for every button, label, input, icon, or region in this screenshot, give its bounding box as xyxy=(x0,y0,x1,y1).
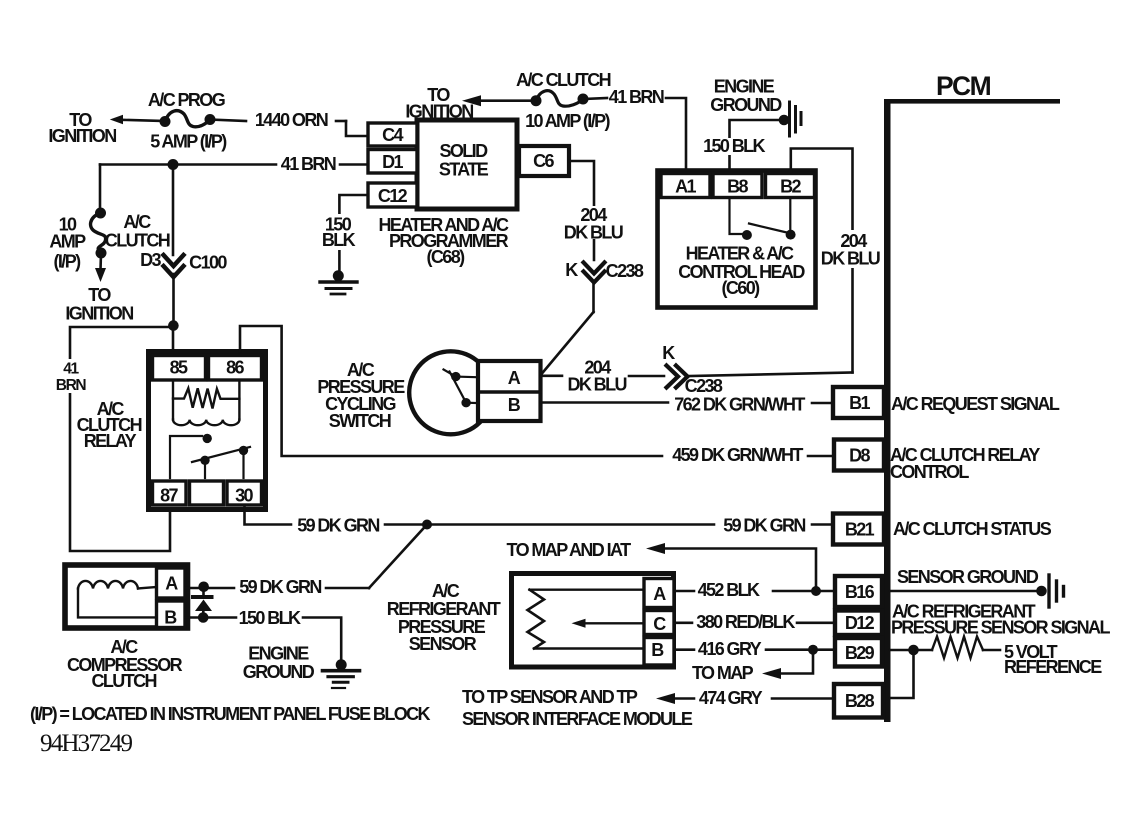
label A/C CLUTCH RELAY xyxy=(77,399,142,451)
wire diagonal junction to compressor branch xyxy=(369,525,427,589)
svg-text:B: B xyxy=(508,395,521,415)
ground (sensor, right-facing) xyxy=(1036,575,1063,607)
svg-text:A: A xyxy=(508,368,521,388)
svg-text:10 AMP (I/P): 10 AMP (I/P) xyxy=(525,111,610,131)
clutch diode xyxy=(193,587,212,618)
control head terminal B8 xyxy=(713,174,762,198)
label A/C PRESSURE CYCLING SWITCH xyxy=(317,360,405,431)
svg-text:(C60): (C60) xyxy=(721,278,760,298)
relay terminal 86 xyxy=(209,356,262,381)
svg-text:A/C REQUEST SIGNAL: A/C REQUEST SIGNAL xyxy=(891,394,1060,414)
label 10 AMP (I/P) (top fuse) xyxy=(525,111,610,131)
svg-text:REFRIGERANT: REFRIGERANT xyxy=(387,599,501,619)
label TO MAP xyxy=(692,663,754,683)
node junction 452 BLK xyxy=(811,586,821,596)
wire C6 to C238 (204 DK BLU) xyxy=(542,161,595,374)
resistor 5V ref xyxy=(932,637,983,659)
label A/C REFRIGERANT PRESSURE SENSOR SIGNAL xyxy=(891,602,1110,638)
connector K C238 (right chevrons) xyxy=(667,366,688,388)
control head terminal B2 xyxy=(766,174,815,198)
svg-text:B1: B1 xyxy=(849,393,870,413)
label 41 BRN xyxy=(281,154,336,174)
label C100 xyxy=(189,253,227,273)
node junction 59 DK GRN xyxy=(422,520,432,530)
svg-text:(I/P) = LOCATED IN INSTRUMEN: (I/P) = LOCATED IN INSTRUMENT PANEL FUSE… xyxy=(30,704,431,724)
programmer terminal C4 xyxy=(368,123,417,146)
svg-text:IGNITION: IGNITION xyxy=(65,304,133,324)
connector D3 C100 (double chevron down) xyxy=(164,255,184,277)
PCM terminal D8 xyxy=(834,440,884,471)
svg-text:SENSOR INTERFACE MODULE: SENSOR INTERFACE MODULE xyxy=(462,709,693,729)
wire 416 GRY xyxy=(674,648,835,651)
svg-text:ENGINE: ENGINE xyxy=(714,77,775,97)
svg-text:PRESSURE SENSOR SIGNAL: PRESSURE SENSOR SIGNAL xyxy=(891,618,1110,638)
svg-text:150 BLK: 150 BLK xyxy=(239,608,301,628)
label 204 DK BLU (C6) xyxy=(564,205,623,243)
svg-text:REFERENCE: REFERENCE xyxy=(1004,657,1102,677)
wire 150 BLK (compressor B) xyxy=(185,618,341,661)
fuse A/C CLUTCH 10 AMP (I/P) xyxy=(91,208,107,259)
label 474 GRY xyxy=(699,688,763,708)
wire 452 BLK xyxy=(674,590,835,593)
svg-text:SENSOR: SENSOR xyxy=(409,634,477,654)
label A/C CLUTCH (top fuse) xyxy=(516,70,611,90)
wire left drop to 10A fuse xyxy=(99,165,102,212)
wire 380 RED/BLK xyxy=(674,621,835,624)
label 150 BLK (programmer) xyxy=(320,214,356,250)
label ENGINE GROUND (control head) xyxy=(710,77,782,116)
wire B2 to 204 DK BLU drop xyxy=(791,149,853,373)
control head outer box xyxy=(658,171,816,308)
svg-text:762 DK GRN/WHT: 762 DK GRN/WHT xyxy=(674,395,805,415)
svg-text:C6: C6 xyxy=(533,151,554,171)
svg-text:K: K xyxy=(662,343,675,363)
wire 86 to 459 DK GRN/WHT (to D8) xyxy=(240,326,662,456)
pressure switch contact dots xyxy=(451,372,471,408)
svg-text:B29: B29 xyxy=(845,643,875,663)
node junction 41 BRN xyxy=(168,159,179,170)
svg-text:D1: D1 xyxy=(382,152,403,172)
svg-text:59 DK GRN: 59 DK GRN xyxy=(239,577,321,597)
wire 1440 ORN to C4 xyxy=(210,120,368,137)
label HEATER AND A/C PROGRAMMER (C68) xyxy=(379,215,510,267)
svg-text:B: B xyxy=(164,608,177,628)
label 1440 ORN xyxy=(255,110,328,130)
svg-text:B16: B16 xyxy=(845,582,875,602)
svg-text:(I/P): (I/P) xyxy=(54,252,82,272)
label SOLID STATE xyxy=(439,141,489,180)
svg-text:TO TP SENSOR AND TP: TO TP SENSOR AND TP xyxy=(462,687,638,707)
svg-text:IGNITION: IGNITION xyxy=(48,126,116,146)
arrow down TO IGNITION xyxy=(95,253,106,282)
control head terminal A1 xyxy=(661,174,710,198)
svg-text:B2: B2 xyxy=(780,177,801,197)
svg-text:K: K xyxy=(565,260,578,280)
programmer terminal C6 xyxy=(519,146,569,176)
svg-text:C100: C100 xyxy=(189,253,227,273)
svg-text:380 RED/BLK: 380 RED/BLK xyxy=(696,612,795,632)
wire 59 DK GRN to B21 xyxy=(427,523,833,526)
sensor wiper arrow xyxy=(572,619,586,628)
svg-text:HEATER & A/C: HEATER & A/C xyxy=(686,244,794,264)
svg-text:TO MAP AND IAT: TO MAP AND IAT xyxy=(507,540,632,560)
node junction 416 GRY xyxy=(808,645,818,655)
label 204 DK BLU (switch) xyxy=(567,358,626,395)
PCM terminal D12 xyxy=(835,611,882,636)
svg-text:D12: D12 xyxy=(845,613,875,633)
svg-text:A: A xyxy=(653,584,666,604)
sensor terminal A xyxy=(644,579,674,608)
svg-text:86: 86 xyxy=(226,358,244,378)
wire 41 BRN loop to relay 87 xyxy=(70,327,173,551)
ground (compressor) xyxy=(323,659,360,688)
svg-text:41 BRN: 41 BRN xyxy=(609,87,664,107)
svg-text:DK BLU: DK BLU xyxy=(564,223,623,243)
svg-text:ENGINE: ENGINE xyxy=(248,644,309,664)
svg-text:459 DK GRN/WHT: 459 DK GRN/WHT xyxy=(672,445,803,465)
svg-text:C238: C238 xyxy=(685,376,723,396)
PCM boundary line xyxy=(884,99,1060,722)
label A/C CLUTCH xyxy=(105,212,170,251)
pressure switch contacts xyxy=(444,370,492,404)
label D3 xyxy=(140,250,161,270)
compressor terminal B xyxy=(157,601,186,628)
svg-text:RELAY: RELAY xyxy=(84,431,137,451)
compressor clutch outer box xyxy=(65,565,188,628)
programmer terminal C12 xyxy=(368,183,417,207)
relay K1 outer box xyxy=(149,352,266,510)
label 59 DK GRN (right) xyxy=(723,516,805,536)
svg-text:SENSOR GROUND: SENSOR GROUND xyxy=(897,567,1039,587)
ground (programmer) xyxy=(320,270,357,294)
svg-text:30: 30 xyxy=(235,486,253,506)
relay contact dots xyxy=(200,434,248,465)
svg-text:CLUTCH: CLUTCH xyxy=(92,671,157,691)
label TO IGNITION (below 10A fuse) xyxy=(65,285,133,324)
svg-text:94H37249: 94H37249 xyxy=(40,730,132,757)
programmer solid state box xyxy=(417,120,517,209)
svg-text:TO: TO xyxy=(88,285,111,305)
svg-text:59 DK GRN: 59 DK GRN xyxy=(723,516,805,536)
PCM terminal B21 xyxy=(833,514,884,545)
svg-text:474 GRY: 474 GRY xyxy=(699,688,763,708)
sensor zigzag resistor xyxy=(528,590,545,649)
node junction 5V ref xyxy=(908,645,919,656)
label 150 BLK (compressor) xyxy=(239,608,301,628)
svg-text:B28: B28 xyxy=(845,691,875,711)
label TO TP SENSOR AND TP SENSOR INTERFACE MODULE xyxy=(462,687,693,729)
svg-text:STATE: STATE xyxy=(439,160,489,180)
label 41 BRN (top) xyxy=(609,87,664,107)
wire B29 to 5 volt reference xyxy=(890,649,1000,652)
svg-text:GROUND: GROUND xyxy=(243,662,315,682)
fuse A/C PROG 5 AMP xyxy=(160,111,216,127)
relay terminal blank xyxy=(190,481,224,505)
svg-text:BLK: BLK xyxy=(322,230,356,250)
svg-text:(C68): (C68) xyxy=(426,247,465,267)
label 10 AMP (I/P) xyxy=(49,215,86,272)
wire sensor ground xyxy=(890,590,1040,593)
svg-text:C: C xyxy=(653,614,666,634)
label 380 RED/BLK xyxy=(696,612,795,632)
svg-text:CLUTCH: CLUTCH xyxy=(105,231,170,251)
pressure switch terminal box xyxy=(478,361,541,421)
svg-text:SOLID: SOLID xyxy=(439,141,488,161)
wire 474 GRY xyxy=(656,693,834,704)
control head switch dots xyxy=(742,230,796,240)
svg-text:C12: C12 xyxy=(378,186,408,206)
fuse A/C CLUTCH 10 AMP (top) xyxy=(531,91,589,107)
label A/C PROG xyxy=(148,90,225,110)
label 150 BLK (control head) xyxy=(702,136,766,156)
svg-text:B8: B8 xyxy=(727,177,748,197)
svg-text:59 DK GRN: 59 DK GRN xyxy=(297,516,379,536)
wire ground to B8 xyxy=(730,120,785,172)
wire 30 to 59 DK GRN xyxy=(245,505,428,525)
sensor terminal C xyxy=(644,611,674,635)
label TO IGNITION (programmer) xyxy=(405,85,473,122)
wire C12 to ground xyxy=(339,195,368,271)
svg-text:1440 ORN: 1440 ORN xyxy=(255,110,328,130)
svg-text:5 AMP (I/P): 5 AMP (I/P) xyxy=(150,132,227,152)
svg-text:D3: D3 xyxy=(140,250,161,270)
svg-text:C4: C4 xyxy=(382,125,403,145)
programmer terminal D1 xyxy=(368,150,417,174)
control head internal switch xyxy=(730,198,792,235)
svg-text:D8: D8 xyxy=(849,446,870,466)
compressor terminal A xyxy=(157,568,186,598)
sensor terminal B xyxy=(644,638,674,666)
svg-text:B: B xyxy=(651,640,664,660)
label 416 GRY xyxy=(698,639,762,659)
svg-text:A: A xyxy=(165,574,178,594)
label 59 DK GRN (left) xyxy=(297,516,379,536)
label 5 VOLT REFERENCE xyxy=(1004,642,1102,677)
wire vertical 41 BRN with D3/C100 xyxy=(172,165,175,327)
relay terminal 30 xyxy=(227,481,262,506)
svg-text:TO MAP: TO MAP xyxy=(692,663,754,683)
svg-text:85: 85 xyxy=(170,358,188,378)
label A/C CLUTCH RELAY CONTROL xyxy=(890,445,1040,482)
relay coil (resistor + inductor loop) xyxy=(173,380,239,425)
svg-text:87: 87 xyxy=(160,486,178,506)
svg-text:41: 41 xyxy=(63,361,79,378)
label TO MAP AND IAT xyxy=(507,540,632,560)
sensor outer box xyxy=(512,574,674,668)
svg-text:B21: B21 xyxy=(845,520,875,540)
svg-text:A/C: A/C xyxy=(110,637,138,657)
label A/C COMPRESSOR CLUTCH xyxy=(67,637,183,691)
wire 41 BRN horizontal to D1 xyxy=(100,163,368,166)
label 204 DK BLU (B2 drop) xyxy=(821,230,880,269)
PCM terminal B29 xyxy=(835,638,882,667)
relay terminal 85 xyxy=(153,356,206,381)
svg-text:A/C: A/C xyxy=(123,212,151,232)
arrow to ignition (programmer) xyxy=(462,95,536,106)
compressor coil xyxy=(78,581,156,617)
svg-text:GROUND: GROUND xyxy=(710,95,782,115)
svg-text:416 GRY: 416 GRY xyxy=(698,639,762,659)
svg-text:CONTROL: CONTROL xyxy=(890,462,969,482)
svg-text:DK BLU: DK BLU xyxy=(567,375,626,395)
svg-text:BRN: BRN xyxy=(56,377,87,394)
wire into relay 85 xyxy=(172,327,175,352)
wire B to B1 (762 DK GRN/WHT) xyxy=(541,401,833,404)
svg-text:SWITCH: SWITCH xyxy=(329,411,391,431)
label 459 DK GRN/WHT xyxy=(672,445,803,465)
PCM terminal B28 xyxy=(834,684,883,718)
PCM terminal B16 xyxy=(835,576,882,607)
arrow to ignition (left) xyxy=(110,115,165,124)
svg-text:150 BLK: 150 BLK xyxy=(703,136,765,156)
svg-text:A1: A1 xyxy=(675,177,696,197)
svg-text:41 BRN: 41 BRN xyxy=(281,154,336,174)
svg-text:A/C CLUTCH: A/C CLUTCH xyxy=(516,70,611,90)
connector K C238 (down chevrons) xyxy=(584,263,605,283)
wire TO MAP xyxy=(762,650,813,679)
svg-text:A/C: A/C xyxy=(432,581,460,601)
svg-text:A/C PROG: A/C PROG xyxy=(148,90,225,110)
label 452 BLK xyxy=(698,580,760,600)
pressure switch circle xyxy=(409,351,492,434)
label TO IGNITION (A/C PROG fuse feed) xyxy=(48,110,116,146)
wire junction to B28 xyxy=(890,650,914,698)
svg-text:DK BLU: DK BLU xyxy=(821,249,880,269)
svg-text:AMP: AMP xyxy=(49,232,86,252)
wire 459 segment to D8 xyxy=(808,455,832,458)
PCM terminal B1 xyxy=(833,387,884,418)
svg-text:452 BLK: 452 BLK xyxy=(698,580,760,600)
sensor internal wires xyxy=(530,590,645,649)
label 762 DK GRN/WHT xyxy=(674,395,805,415)
label HEATER & A/C CONTROL HEAD (C60) xyxy=(678,244,805,299)
ground (control head, right-facing) xyxy=(779,102,801,136)
relay terminal 87 xyxy=(153,481,187,506)
relay switch contact xyxy=(170,436,250,478)
label ENGINE GROUND (compressor) xyxy=(243,644,315,683)
node junction above relay xyxy=(168,320,179,331)
wire 41 BRN to A1 xyxy=(583,98,686,172)
label 41 BRN (vertical branch) xyxy=(53,359,88,394)
diode node dots xyxy=(198,582,209,623)
svg-text:PCM: PCM xyxy=(936,71,991,101)
arrow/wire TO MAP AND IAT xyxy=(646,543,816,591)
svg-text:A/C CLUTCH STATUS: A/C CLUTCH STATUS xyxy=(893,519,1052,539)
label 5 AMP (I/P) xyxy=(150,132,227,152)
label A/C REFRIGERANT PRESSURE SENSOR xyxy=(387,581,501,654)
label 59 DK GRN (compressor) xyxy=(239,577,321,597)
wire 59 DK GRN (compressor A) xyxy=(185,587,369,590)
svg-text:C238: C238 xyxy=(606,261,644,281)
wire A to C238 (204 DK BLU horizontal) xyxy=(541,373,853,377)
